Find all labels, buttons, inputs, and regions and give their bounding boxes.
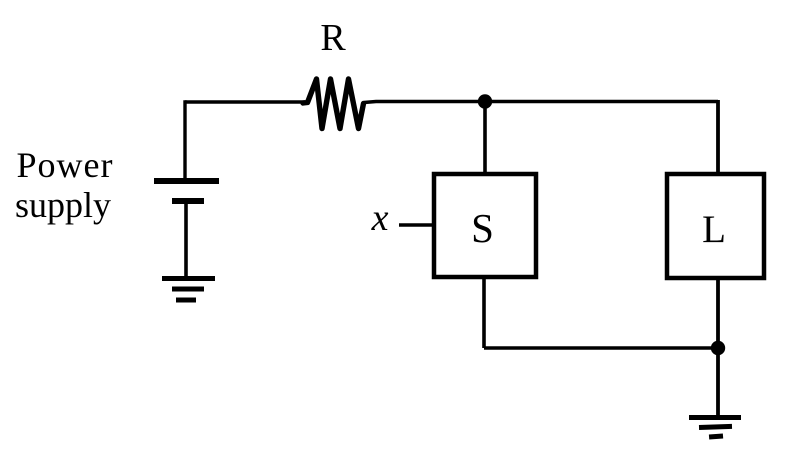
box S (434, 174, 536, 277)
ground right (689, 418, 741, 437)
wire top horizontal right (resistor to right corner) (364, 102, 718, 103)
svg-text:x: x (371, 197, 389, 239)
resistor R1 zigzag (303, 79, 364, 129)
svg-text:supply: supply (15, 185, 111, 225)
wire right vertical down to L box (716, 100, 720, 174)
node junction dot bottom (711, 341, 725, 355)
battery B1 bottom plate (short) (172, 198, 204, 204)
svg-text:Power: Power (17, 145, 114, 185)
svg-text:L: L (702, 208, 726, 251)
ground left (162, 279, 215, 301)
wire battery to ground (184, 201, 188, 277)
wire S box bottom vertical (482, 277, 486, 348)
wire junction to ground (716, 348, 720, 416)
wire top horizontal left (battery to resistor) (185, 100, 305, 103)
battery B1 top plate (long) (154, 178, 219, 184)
node junction dot top (478, 94, 492, 108)
wire junction to S box (483, 102, 487, 175)
wire left vertical (top wire down to battery) (183, 100, 186, 181)
wire L box bottom vertical (716, 278, 720, 348)
box L (667, 174, 764, 278)
wire x input to S box (399, 223, 434, 227)
svg-text:S: S (471, 205, 494, 251)
svg-text:R: R (320, 17, 346, 59)
wire bottom horizontal (484, 346, 718, 349)
